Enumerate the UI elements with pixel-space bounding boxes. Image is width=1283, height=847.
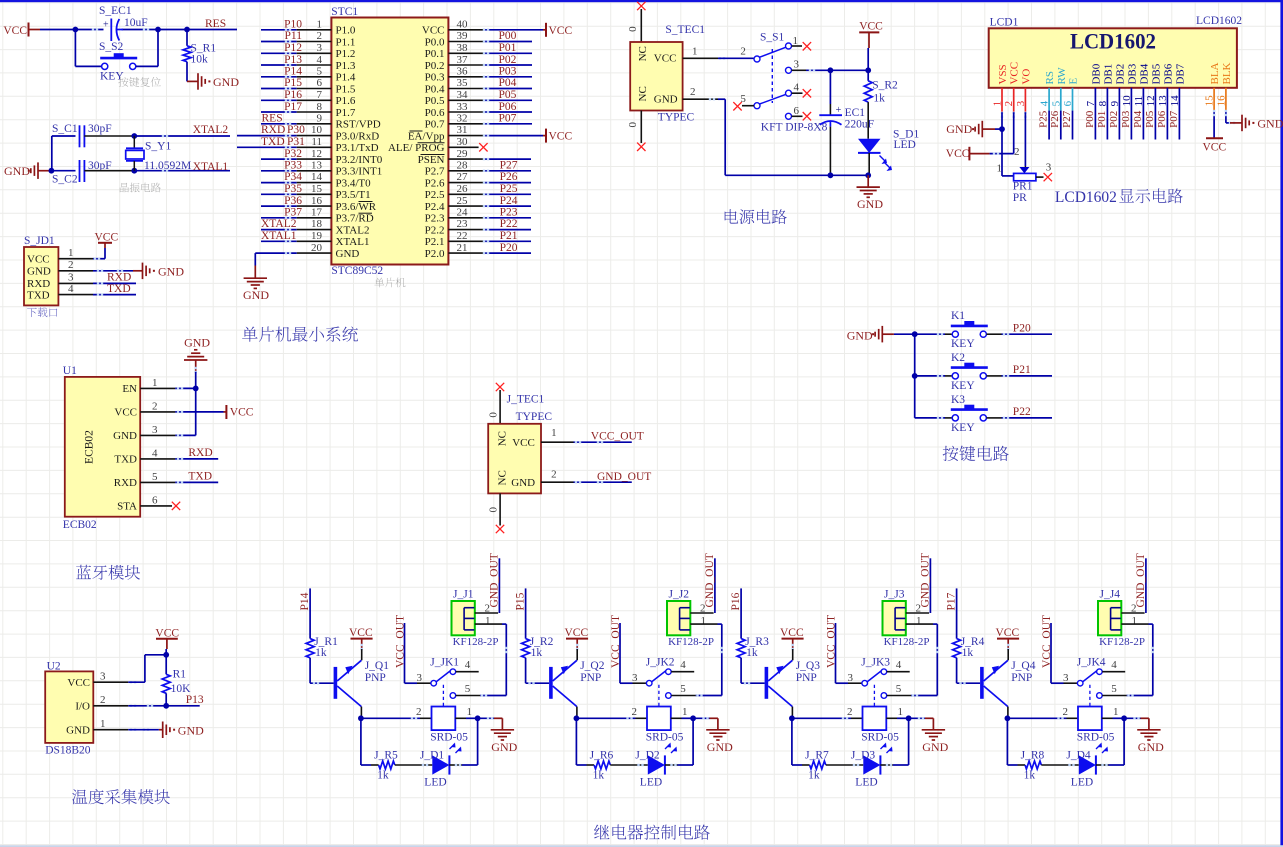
net label RES bbox=[205, 18, 226, 30]
junction bbox=[690, 715, 696, 721]
svg-text:2: 2 bbox=[1063, 706, 1069, 718]
svg-text:P00: P00 bbox=[499, 30, 517, 42]
wire switch pin 5 stub bbox=[742, 105, 754, 107]
no-connect X bbox=[733, 102, 741, 110]
svg-text:1: 1 bbox=[692, 46, 698, 58]
net label P20 bbox=[500, 242, 518, 254]
net label P33 bbox=[284, 160, 302, 172]
pin 4 wire TXD bbox=[58, 283, 136, 296]
junction bbox=[475, 715, 481, 721]
wire mcu pin 20 to ground bbox=[255, 252, 331, 278]
svg-text:29: 29 bbox=[457, 148, 469, 160]
caption 单片机 bbox=[374, 278, 405, 288]
svg-text:P37: P37 bbox=[284, 207, 302, 219]
svg-text:1: 1 bbox=[467, 706, 473, 718]
svg-text:0: 0 bbox=[487, 507, 499, 513]
net label P35 bbox=[284, 183, 302, 195]
crystal S_Y1 11.0592M bbox=[126, 136, 191, 172]
svg-text:TYPEC: TYPEC bbox=[516, 411, 553, 423]
svg-text:P3.5/T1: P3.5/T1 bbox=[336, 189, 371, 201]
net label XTAL2 bbox=[261, 218, 297, 230]
svg-text:XTAL1: XTAL1 bbox=[336, 236, 370, 248]
junction bbox=[163, 652, 169, 658]
svg-text:VCC: VCC bbox=[780, 627, 804, 639]
svg-text:8: 8 bbox=[317, 101, 323, 113]
svg-text:P0.6: P0.6 bbox=[425, 107, 445, 119]
wire led to node bbox=[880, 718, 908, 766]
junction bbox=[184, 27, 190, 33]
svg-text:P17: P17 bbox=[284, 101, 302, 113]
svg-text:PR: PR bbox=[1013, 192, 1027, 204]
wire resistor to led bbox=[826, 764, 864, 766]
svg-text:6: 6 bbox=[152, 494, 158, 506]
svg-text:RES: RES bbox=[262, 113, 283, 125]
svg-text:4: 4 bbox=[680, 659, 686, 671]
resistor J_R3 1k bbox=[737, 636, 769, 659]
svg-text:6: 6 bbox=[794, 105, 800, 117]
svg-text:P33: P33 bbox=[284, 160, 302, 172]
wire pin 4 TXD bbox=[140, 458, 218, 460]
svg-text:P1.0: P1.0 bbox=[336, 25, 356, 37]
no-connect X bbox=[637, 2, 645, 10]
svg-text:VCC: VCC bbox=[512, 437, 535, 449]
svg-text:20: 20 bbox=[311, 242, 323, 254]
push button S_S2 KEY bbox=[75, 30, 158, 83]
svg-text:S_R2: S_R2 bbox=[872, 80, 898, 92]
svg-text:11: 11 bbox=[311, 136, 322, 148]
svg-text:P3.3/INT1: P3.3/INT1 bbox=[336, 166, 383, 178]
svg-text:XTAL2: XTAL2 bbox=[336, 224, 370, 236]
svg-text:LED: LED bbox=[855, 777, 877, 789]
svg-text:NC: NC bbox=[497, 431, 509, 446]
wire contact 4 stub bbox=[671, 671, 694, 673]
power port VCC bbox=[349, 627, 373, 649]
net label P11 bbox=[285, 30, 303, 42]
svg-text:25: 25 bbox=[457, 195, 469, 207]
switch S_S1 KFT DIP-8X8 bbox=[740, 31, 827, 133]
svg-text:J_R8: J_R8 bbox=[1021, 750, 1045, 762]
svg-text:32: 32 bbox=[457, 113, 468, 125]
wire coil pin 1 to gnd bbox=[671, 706, 693, 718]
svg-text:RXD: RXD bbox=[261, 124, 285, 136]
svg-text:LCD1602: LCD1602 bbox=[1070, 29, 1156, 54]
wire mcu right pin row 5 bbox=[448, 76, 532, 78]
net label P20 bbox=[1013, 322, 1031, 334]
junction bbox=[999, 126, 1005, 132]
power port VCC bbox=[546, 129, 572, 143]
svg-text:BLK: BLK bbox=[1221, 62, 1233, 84]
wire pin 3 GND bbox=[140, 434, 183, 436]
svg-text:KF128-2P: KF128-2P bbox=[884, 636, 930, 648]
svg-text:TXD: TXD bbox=[27, 289, 50, 301]
wire base bbox=[957, 658, 981, 685]
no-connect X bbox=[803, 42, 811, 50]
svg-text:S_EC1: S_EC1 bbox=[99, 5, 132, 17]
svg-text:27: 27 bbox=[457, 171, 469, 183]
svg-text:P03: P03 bbox=[1120, 110, 1132, 128]
svg-text:1: 1 bbox=[1113, 706, 1119, 718]
svg-text:VCC: VCC bbox=[95, 232, 119, 244]
net label VCC_OUT bbox=[610, 615, 622, 668]
capacitor S_EC1 10uF bbox=[99, 5, 148, 41]
svg-text:P35: P35 bbox=[284, 183, 302, 195]
svg-text:5: 5 bbox=[680, 683, 686, 695]
svg-text:1: 1 bbox=[485, 615, 491, 627]
transistor J_Q3 PNP bbox=[765, 644, 821, 719]
svg-text:J_J1: J_J1 bbox=[453, 589, 474, 601]
caption 蓝牙模块 bbox=[76, 565, 140, 580]
svg-text:19: 19 bbox=[311, 230, 323, 242]
net label P27 bbox=[500, 160, 518, 172]
svg-text:P3.0/RxD: P3.0/RxD bbox=[336, 130, 380, 142]
display pin names bbox=[997, 62, 1233, 85]
svg-text:VSS: VSS bbox=[997, 64, 1009, 84]
svg-text:RS: RS bbox=[1044, 71, 1056, 84]
transistor J_Q1 PNP bbox=[334, 644, 390, 719]
svg-text:+: + bbox=[103, 20, 109, 31]
svg-text:10: 10 bbox=[311, 124, 323, 136]
net label RES bbox=[262, 113, 283, 125]
net label P03 bbox=[1120, 110, 1132, 128]
svg-text:P14: P14 bbox=[284, 66, 302, 78]
svg-text:GND: GND bbox=[184, 336, 210, 350]
svg-text:TYPEC: TYPEC bbox=[658, 112, 695, 124]
svg-text:S_S2: S_S2 bbox=[99, 41, 124, 53]
svg-text:P24: P24 bbox=[500, 195, 518, 207]
wire resistor to led bbox=[395, 764, 433, 766]
net label P36 bbox=[284, 195, 302, 207]
svg-text:LED: LED bbox=[640, 777, 662, 789]
resistor J_R2 1k bbox=[522, 636, 554, 659]
wire connector pin 2 to GND_OUT bbox=[1121, 558, 1146, 614]
net label GND_OUT bbox=[489, 553, 501, 607]
svg-text:P25: P25 bbox=[500, 183, 518, 195]
net label P22 bbox=[1013, 406, 1031, 418]
net label TXD bbox=[107, 283, 131, 295]
svg-text:P11: P11 bbox=[285, 30, 303, 42]
svg-text:DB2: DB2 bbox=[1114, 64, 1126, 85]
svg-text:37: 37 bbox=[457, 54, 469, 66]
ground bbox=[163, 722, 204, 739]
potentiometer PR1 PR bbox=[997, 129, 1052, 204]
caption 继电器控制电路 bbox=[594, 825, 710, 840]
svg-text:J_Q2: J_Q2 bbox=[580, 660, 605, 672]
net label RXD bbox=[107, 271, 131, 283]
svg-text:J_TEC1: J_TEC1 bbox=[507, 394, 545, 406]
svg-text:1k: 1k bbox=[873, 93, 885, 105]
net label P02 bbox=[499, 54, 517, 66]
no-connect X bbox=[496, 383, 504, 391]
svg-text:P26: P26 bbox=[1049, 110, 1061, 128]
net label P07 bbox=[499, 113, 517, 125]
svg-text:J_Q1: J_Q1 bbox=[365, 660, 390, 672]
net label P26 bbox=[500, 171, 518, 183]
ground bbox=[187, 73, 239, 90]
wire mcu right pin row 15 bbox=[448, 193, 531, 195]
svg-text:GND: GND bbox=[213, 75, 239, 89]
module pin numbers bbox=[152, 377, 158, 507]
svg-text:P1.1: P1.1 bbox=[336, 36, 356, 48]
wire mcu right pin row 18 bbox=[448, 228, 531, 230]
wire VCC_OUT to contact 3 bbox=[405, 623, 431, 683]
svg-text:9: 9 bbox=[317, 113, 323, 125]
wire BLK to GND bbox=[1225, 88, 1242, 124]
ground bbox=[1124, 717, 1164, 754]
svg-text:P13: P13 bbox=[186, 694, 204, 706]
wire connector pin 1 down bbox=[690, 615, 723, 653]
wire pin 1 GND bbox=[93, 718, 162, 731]
svg-text:3: 3 bbox=[794, 59, 800, 71]
wire led branch bbox=[792, 718, 810, 765]
svg-text:16: 16 bbox=[311, 195, 323, 207]
svg-text:ECB02: ECB02 bbox=[84, 430, 96, 464]
svg-text:23: 23 bbox=[457, 218, 469, 230]
junction bbox=[358, 715, 364, 721]
svg-text:KEY: KEY bbox=[951, 338, 975, 350]
net label TXD P31 bbox=[261, 136, 305, 148]
svg-text:P1.6: P1.6 bbox=[336, 95, 356, 107]
relay switch J_JK3 bbox=[848, 657, 902, 706]
junction bbox=[912, 331, 918, 337]
svg-text:J_R6: J_R6 bbox=[590, 750, 614, 762]
svg-text:GND: GND bbox=[857, 197, 883, 211]
svg-text:XTAL2: XTAL2 bbox=[193, 124, 229, 136]
wire J_TEC1 bottom stub pin 0 bbox=[487, 493, 500, 525]
svg-text:5: 5 bbox=[317, 66, 323, 78]
svg-text:P2.0: P2.0 bbox=[425, 248, 445, 260]
wire mcu left pin row 17 bbox=[261, 217, 331, 219]
net label P05 bbox=[499, 89, 517, 101]
svg-text:7: 7 bbox=[317, 89, 323, 101]
wire mcu right pin row 4 bbox=[448, 64, 532, 66]
wire switch pin 4 stub bbox=[792, 92, 803, 94]
wire pin 1 EN bbox=[140, 387, 196, 389]
ground bbox=[4, 162, 51, 179]
svg-text:1: 1 bbox=[100, 718, 106, 730]
svg-text:38: 38 bbox=[457, 42, 469, 54]
svg-text:1: 1 bbox=[1132, 615, 1138, 627]
net label P06 bbox=[499, 101, 517, 113]
svg-text:K3: K3 bbox=[951, 394, 965, 406]
svg-text:3: 3 bbox=[417, 672, 423, 684]
net label P25 bbox=[500, 183, 518, 195]
wire mcu pin 29 PSEN bbox=[448, 158, 531, 160]
svg-text:VCC: VCC bbox=[996, 627, 1020, 639]
svg-text:P12: P12 bbox=[284, 42, 302, 54]
svg-text:RW: RW bbox=[1056, 67, 1068, 85]
svg-text:+: + bbox=[836, 105, 842, 116]
net label XTAL2 bbox=[193, 124, 229, 136]
svg-text:VCC: VCC bbox=[3, 25, 27, 37]
net label VCC_OUT bbox=[395, 615, 407, 668]
svg-text:P3.6/WR: P3.6/WR bbox=[336, 201, 377, 213]
svg-text:P13: P13 bbox=[284, 54, 302, 66]
wire contact 5 to connector pin 1 bbox=[456, 624, 507, 697]
svg-text:DB0: DB0 bbox=[1090, 63, 1102, 84]
svg-text:LCD1: LCD1 bbox=[990, 17, 1019, 29]
net label P13 bbox=[284, 54, 302, 66]
svg-text:P15: P15 bbox=[284, 77, 302, 89]
wire mcu right pin row 8 bbox=[448, 111, 532, 113]
wire coil pin 1 to gnd bbox=[455, 706, 477, 718]
svg-text:30pF: 30pF bbox=[88, 123, 112, 135]
relay switch J_JK2 bbox=[632, 657, 686, 706]
svg-text:J_Q3: J_Q3 bbox=[796, 660, 821, 672]
wire mcu left pin row 11 bbox=[237, 146, 331, 148]
svg-text:P06: P06 bbox=[499, 101, 517, 113]
junction bbox=[1005, 715, 1011, 721]
svg-text:S_TEC1: S_TEC1 bbox=[665, 24, 705, 36]
wire VCC_OUT to contact 3 bbox=[620, 623, 646, 683]
svg-text:4: 4 bbox=[317, 54, 323, 66]
svg-text:12: 12 bbox=[311, 148, 322, 160]
net label P03 bbox=[499, 66, 517, 78]
svg-text:GND: GND bbox=[243, 288, 269, 302]
wire S_TEC1 bottom stub pin 0 bbox=[627, 111, 642, 144]
svg-text:1k: 1k bbox=[746, 647, 758, 659]
svg-text:LED: LED bbox=[1071, 777, 1093, 789]
svg-text:KEY: KEY bbox=[951, 380, 975, 392]
wire mcu right pin row 7 bbox=[448, 99, 532, 101]
svg-text:P3.1/TxD: P3.1/TxD bbox=[336, 142, 379, 154]
junction bbox=[912, 373, 918, 379]
display pin wires 4-6 bbox=[1049, 88, 1072, 140]
svg-text:GND: GND bbox=[66, 725, 90, 737]
transistor J_Q2 PNP bbox=[549, 644, 605, 719]
wire J_TEC1 top stub pin 0 bbox=[487, 390, 500, 424]
svg-text:1: 1 bbox=[701, 615, 707, 627]
power port VCC bbox=[224, 405, 254, 419]
svg-text:NC: NC bbox=[637, 46, 649, 61]
net label GND_OUT bbox=[920, 553, 932, 607]
connector J_TEC1 TYPEC bbox=[488, 394, 552, 494]
svg-text:P06: P06 bbox=[1156, 110, 1168, 128]
svg-text:1: 1 bbox=[682, 706, 688, 718]
svg-text:J_J3: J_J3 bbox=[884, 589, 905, 601]
svg-text:28: 28 bbox=[457, 160, 469, 172]
svg-text:XTAL1: XTAL1 bbox=[193, 161, 229, 173]
ground bbox=[1242, 115, 1283, 132]
caption 温度采集模块 bbox=[72, 789, 170, 804]
svg-text:2: 2 bbox=[632, 706, 638, 718]
svg-text:39: 39 bbox=[457, 30, 469, 42]
svg-text:PNP: PNP bbox=[796, 672, 817, 684]
svg-text:KF128-2P: KF128-2P bbox=[1099, 636, 1145, 648]
wire mcu pin 40 to VCC bbox=[448, 29, 546, 31]
svg-text:220uF: 220uF bbox=[845, 119, 874, 131]
wire P15 net bbox=[525, 588, 527, 638]
svg-text:VCC: VCC bbox=[27, 254, 50, 266]
pin 1 wire to VCC bbox=[58, 247, 105, 260]
svg-text:GND: GND bbox=[491, 740, 517, 754]
svg-text:26: 26 bbox=[457, 183, 469, 195]
resistor R1 10K bbox=[162, 655, 191, 706]
svg-text:LED: LED bbox=[424, 777, 446, 789]
svg-text:P23: P23 bbox=[500, 207, 518, 219]
svg-text:2: 2 bbox=[847, 706, 853, 718]
wire pin 5 RXD bbox=[140, 481, 218, 483]
svg-text:P3.4/T0: P3.4/T0 bbox=[336, 177, 372, 189]
svg-text:NC: NC bbox=[497, 470, 509, 485]
svg-text:4: 4 bbox=[896, 659, 902, 671]
net label P00 bbox=[1084, 110, 1096, 128]
junction bbox=[865, 172, 871, 178]
net label P06 bbox=[1156, 110, 1168, 128]
svg-text:VCC: VCC bbox=[422, 25, 445, 37]
net label XTAL1 bbox=[193, 161, 229, 173]
svg-text:XTAL2: XTAL2 bbox=[261, 218, 297, 230]
wire mcu right pin row 9 bbox=[448, 123, 532, 125]
svg-text:VCC: VCC bbox=[565, 627, 589, 639]
svg-text:P22: P22 bbox=[500, 218, 518, 230]
push button K3 KEY bbox=[915, 394, 988, 434]
svg-text:GND: GND bbox=[847, 328, 873, 342]
connector S_TEC1 TYPEC bbox=[630, 24, 705, 124]
wire crystal left rail bbox=[52, 136, 76, 171]
power port VCC bbox=[996, 627, 1020, 649]
svg-text:GND_OUT: GND_OUT bbox=[704, 553, 716, 607]
svg-text:1: 1 bbox=[152, 377, 158, 389]
junction bbox=[49, 168, 55, 174]
svg-text:1: 1 bbox=[317, 19, 323, 31]
svg-text:RXD: RXD bbox=[27, 278, 50, 290]
wire mcu left pin row 10 bbox=[237, 134, 331, 136]
svg-text:P27: P27 bbox=[500, 160, 518, 172]
power port VCC bbox=[95, 232, 119, 249]
svg-text:P0.4: P0.4 bbox=[425, 83, 445, 95]
svg-text:VCC: VCC bbox=[114, 407, 137, 419]
mcu U STC1 STC89C52 body bbox=[331, 6, 448, 277]
svg-text:J_JK4: J_JK4 bbox=[1077, 657, 1106, 669]
svg-text:18: 18 bbox=[311, 218, 323, 230]
ground bbox=[478, 717, 518, 754]
svg-text:10k: 10k bbox=[191, 54, 209, 66]
svg-text:EN: EN bbox=[122, 383, 137, 395]
svg-text:P2.1: P2.1 bbox=[425, 236, 445, 248]
ground bbox=[857, 175, 884, 211]
wire mcu right pin row 19 bbox=[448, 240, 531, 242]
svg-text:2: 2 bbox=[100, 694, 106, 706]
ground bbox=[143, 263, 185, 280]
svg-text:VCC: VCC bbox=[155, 628, 179, 640]
power port VCC bbox=[155, 628, 179, 655]
net label GND_OUT bbox=[597, 471, 651, 483]
svg-text:P15: P15 bbox=[514, 592, 526, 610]
wire collector node to coil bbox=[576, 706, 647, 720]
svg-text:GND: GND bbox=[1257, 117, 1283, 131]
wire mcu left pin row 18 bbox=[261, 228, 331, 230]
relay coil J_JK3 SRD-05 bbox=[861, 707, 899, 754]
svg-text:1k: 1k bbox=[593, 770, 605, 782]
svg-text:PNP: PNP bbox=[365, 672, 386, 684]
svg-text:P27: P27 bbox=[1061, 110, 1073, 128]
power port VCC bbox=[859, 21, 883, 71]
svg-text:3: 3 bbox=[100, 671, 106, 683]
junction bbox=[163, 703, 169, 709]
ground bbox=[946, 121, 1002, 138]
connector J_J4 KF128-2P bbox=[1098, 589, 1145, 649]
wire mcu left pin row 19 bbox=[261, 240, 331, 242]
net label P34 bbox=[284, 171, 302, 183]
svg-text:P2.5: P2.5 bbox=[425, 189, 445, 201]
svg-text:S_JD1: S_JD1 bbox=[24, 235, 55, 247]
wire coil pin 1 to gnd bbox=[1102, 706, 1124, 718]
svg-text:KFT DIP-8X8: KFT DIP-8X8 bbox=[761, 121, 828, 133]
net label P14 bbox=[299, 592, 311, 610]
svg-text:VCC: VCC bbox=[549, 131, 573, 143]
svg-text:STC1: STC1 bbox=[331, 6, 358, 18]
wire led to node bbox=[665, 718, 693, 766]
